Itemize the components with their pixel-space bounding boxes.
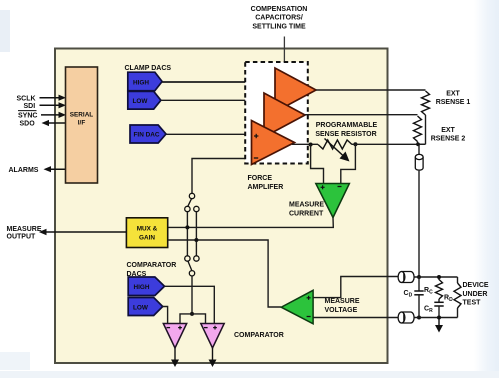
switch arm lower: [188, 261, 192, 270]
pot arrow across sense resistor: [325, 139, 350, 162]
switch contact pair upper: [185, 206, 190, 211]
ground arrow: [435, 318, 443, 333]
svg-text:CAPACITORS/: CAPACITORS/: [255, 15, 303, 22]
svg-text:ALARMS: ALARMS: [9, 167, 39, 174]
svg-text:SENSE RESISTOR: SENSE RESISTOR: [315, 131, 376, 138]
coax connector bottom (sense line): [398, 312, 414, 323]
wire FIN DAC to force amp + input: [166, 133, 252, 135]
svg-text:AMPLIFER: AMPLIFER: [248, 184, 284, 191]
wire T1 output to ext rsense 1: [316, 89, 426, 91]
svg-text:GAIN: GAIN: [139, 235, 155, 242]
node sense right: [353, 142, 357, 146]
resistor EXT RSENSE 2: [414, 116, 422, 142]
svg-text:TEST: TEST: [463, 300, 482, 307]
svg-text:RSENSE 1: RSENSE 1: [436, 99, 471, 106]
svg-text:COMPENSATION: COMPENSATION: [251, 6, 308, 13]
wire mux input 2 from measure voltage: [168, 240, 281, 307]
main block outer box: [55, 49, 388, 364]
wire clamp HIGH to amp T1: [162, 81, 275, 83]
wire left switch path: [186, 212, 188, 256]
node DUT bottom: [417, 316, 421, 320]
svg-text:CLAMP DACS: CLAMP DACS: [125, 65, 172, 72]
wire ALARMS out of serial: [9, 166, 66, 174]
wire node to left comparator +: [180, 314, 192, 324]
svg-text:SYNC: SYNC: [18, 113, 37, 120]
wire right comparator output arrow: [209, 348, 217, 367]
comparator right: [201, 324, 224, 349]
switch contact pair lower: [185, 256, 190, 261]
svg-text:PROGRAMMABLE: PROGRAMMABLE: [316, 122, 378, 129]
svg-text:HIGH: HIGH: [133, 79, 149, 86]
wire junction down to coax: [418, 144, 420, 154]
svg-text:COMPARATOR: COMPARATOR: [234, 332, 284, 339]
op-amp measure voltage: [281, 290, 313, 324]
svg-text:SERIAL: SERIAL: [70, 112, 94, 119]
wire clamp LOW to amp T2: [161, 99, 265, 101]
wire measure current output to mux wire1: [168, 218, 334, 228]
svg-text:FORCE: FORCE: [248, 175, 273, 182]
node DUT top: [417, 275, 421, 279]
svg-text:EXT: EXT: [441, 127, 455, 134]
svg-text:EXT: EXT: [446, 90, 460, 97]
svg-text:SETTLING TIME: SETTLING TIME: [252, 23, 306, 30]
svg-text:RSENSE 2: RSENSE 2: [431, 136, 466, 143]
resistor RC: [436, 277, 443, 299]
svg-text:HIGH: HIGH: [134, 284, 150, 291]
switch arm upper: [188, 199, 192, 207]
node sense left: [309, 143, 313, 147]
svg-text:CURRENT: CURRENT: [289, 211, 324, 218]
wire sense right to measure-current -: [341, 144, 356, 184]
op-amp force amplifier T3: [252, 121, 295, 165]
wire node to right comparator -: [192, 314, 206, 324]
wire DUT bottom rail: [415, 317, 458, 319]
svg-text:SDI: SDI: [24, 103, 36, 110]
amplifier stage T2: [264, 93, 305, 137]
node comparator junction: [190, 312, 194, 316]
wire DUT top rail: [415, 276, 458, 278]
resistor programmable sense: [318, 140, 352, 149]
svg-text:MEASURE: MEASURE: [289, 202, 324, 209]
wire T2 output to ext rsense 2: [305, 114, 418, 116]
resistor RD: [454, 277, 461, 318]
label COMPENSATION CAPACITORS / SETTLING TIME: [251, 6, 308, 30]
svg-text:MUX &: MUX &: [137, 225, 158, 232]
wire right switch path: [195, 212, 197, 256]
node mux wire1 / left path: [185, 225, 189, 229]
wire SDO out of serial: [20, 120, 66, 128]
node rsense junction: [416, 142, 420, 146]
svg-text:I/F: I/F: [78, 120, 86, 127]
wire SCLK into serial: [17, 95, 67, 103]
coax connector vertical: [415, 154, 423, 170]
comparator left: [163, 324, 186, 349]
capacitor CR: [434, 299, 443, 318]
clamp DAC LOW: [128, 91, 161, 109]
wire SYNC (overline) into serial: [18, 111, 66, 120]
svg-text:OUTPUT: OUTPUT: [7, 233, 37, 240]
node RC top: [437, 275, 441, 279]
svg-text:VOLTAGE: VOLTAGE: [325, 307, 358, 314]
clamp DAC HIGH: [128, 72, 162, 91]
node mux wire2 / right path: [194, 238, 198, 242]
svg-text:SDO: SDO: [20, 121, 36, 128]
svg-text:COMPARATOR: COMPARATOR: [127, 262, 177, 269]
svg-text:LOW: LOW: [133, 304, 149, 311]
svg-text:LOW: LOW: [133, 98, 149, 105]
wire sense left to measure-current +: [311, 145, 324, 185]
resistor EXT RSENSE 1: [422, 91, 430, 115]
wire left comparator output arrow: [171, 348, 179, 367]
wire measure voltage - input from DUT sense line: [313, 317, 398, 319]
FIN DAC: [130, 125, 166, 143]
switch bottom contact: [189, 271, 194, 276]
switch chain top contact: [189, 193, 194, 198]
comparator DAC LOW: [128, 298, 163, 316]
svg-text:FIN DAC: FIN DAC: [134, 132, 160, 139]
wire callout line to dashed box: [283, 37, 285, 63]
mux and gain block: [126, 218, 167, 248]
wire comparator HIGH to right comparator +: [165, 286, 215, 323]
serial interface block U1: [66, 67, 98, 183]
wire rsense junction: [418, 142, 426, 145]
op-amp measure current: [316, 184, 350, 218]
wire rsense1 bottom: [425, 115, 427, 144]
wire T3 output to sense resistor: [292, 143, 318, 145]
wire measure voltage + input from DUT force line: [313, 277, 398, 298]
wire SDI into serial: [24, 102, 67, 110]
compensation dashed box: [245, 62, 308, 164]
svg-text:DEVICE: DEVICE: [463, 282, 489, 289]
wire comparator LOW to left comparator -: [163, 307, 168, 324]
wire coax down to DUT force node: [418, 171, 420, 277]
wire feedback to force amp - input: [192, 159, 252, 194]
svg-text:MEASURE: MEASURE: [325, 298, 360, 305]
coax connector top (force line): [398, 272, 414, 283]
wire sense resistor to box edge: [352, 143, 426, 145]
wire switch to comparator node: [191, 276, 193, 314]
amplifier stage T1: [275, 68, 316, 112]
svg-text:UNDER: UNDER: [463, 291, 488, 298]
wire measure output arrow: [39, 229, 127, 235]
svg-text:MEASURE: MEASURE: [7, 226, 42, 233]
svg-text:SCLK: SCLK: [17, 96, 36, 103]
node ground: [437, 316, 441, 320]
capacitor CD: [414, 277, 423, 318]
comparator DAC HIGH: [128, 277, 164, 296]
